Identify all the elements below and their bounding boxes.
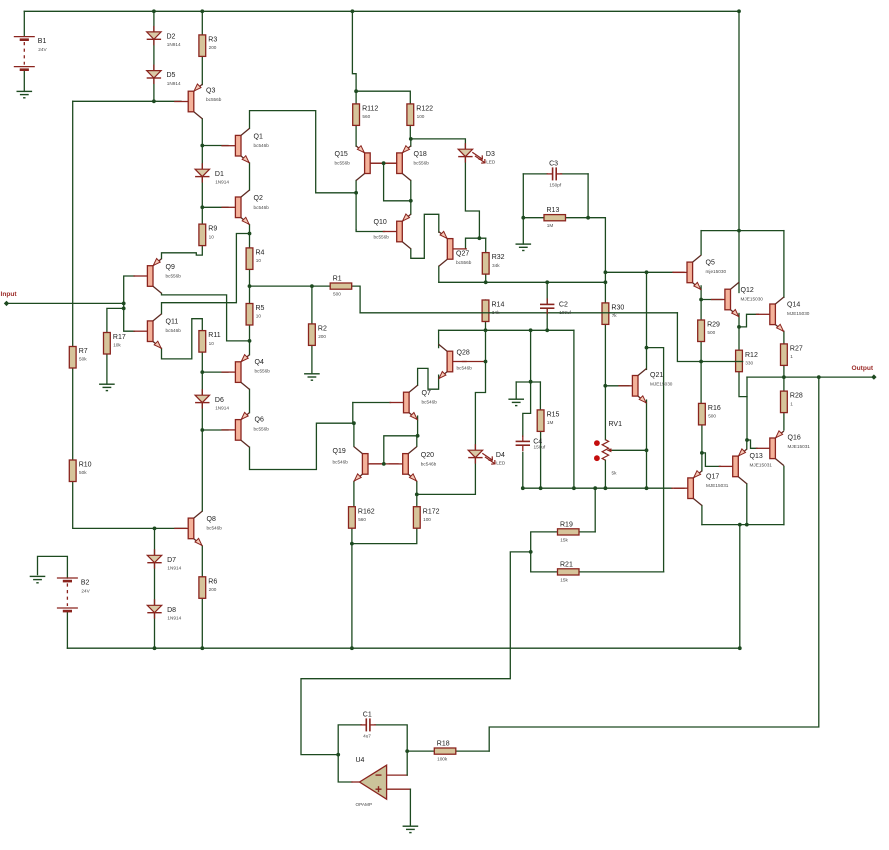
svg-text:bc546b: bc546b xyxy=(166,328,182,333)
wire Q4 base xyxy=(202,371,228,373)
wire node to R1 xyxy=(250,285,331,287)
svg-text:MJE15030: MJE15030 xyxy=(650,382,673,387)
transistor Q6 xyxy=(235,420,241,441)
wire D6 cathode lead xyxy=(201,403,203,430)
wire Q17 base stub xyxy=(672,487,684,489)
junction ground R15 C4 xyxy=(529,380,533,384)
svg-text:R27: R27 xyxy=(790,346,803,353)
wire Q14 emitter to R27 xyxy=(783,331,785,344)
junction A Q21 xyxy=(645,270,649,274)
junction C2 lower xyxy=(545,328,549,332)
wire R16 bottom lead xyxy=(701,425,703,453)
wire Q10 collector staple xyxy=(411,214,439,258)
wire R30 bottom to Q21 base xyxy=(605,324,629,385)
svg-text:R29: R29 xyxy=(707,322,720,329)
resistor R12 xyxy=(736,350,743,372)
svg-text:1M: 1M xyxy=(547,223,554,228)
wire R27 bottom lead xyxy=(783,366,785,378)
wire R10 to Q8 base xyxy=(73,482,186,529)
junction R14 lower xyxy=(484,328,488,332)
wire Q3 base xyxy=(154,100,181,102)
diode D7 xyxy=(154,549,156,555)
junction input Q9b xyxy=(122,302,126,306)
wire R14 bottom lead xyxy=(485,320,487,330)
junction R19 R21 servo xyxy=(529,550,533,554)
svg-text:Output: Output xyxy=(852,365,874,372)
resistor R32 xyxy=(482,253,489,275)
svg-text:R15: R15 xyxy=(547,412,560,419)
resistor R10 xyxy=(69,460,76,482)
wire R112 top lead xyxy=(355,91,357,104)
svg-text:Q21: Q21 xyxy=(650,372,663,379)
wire Q28 base junction drop xyxy=(475,330,485,450)
junction R5 Q4e xyxy=(248,339,252,343)
svg-text:50k: 50k xyxy=(79,357,87,362)
junction R11 D6 Q4b xyxy=(200,370,204,374)
transistor Q4 xyxy=(235,362,241,383)
svg-text:C2: C2 xyxy=(559,302,568,309)
wire tail drop to rail xyxy=(351,544,353,649)
wire R162-R172 bottom link xyxy=(352,528,417,543)
svg-text:bc546b: bc546b xyxy=(207,526,223,531)
svg-text:Q8: Q8 xyxy=(207,516,216,523)
svg-text:R19: R19 xyxy=(560,521,573,528)
resistor R15 xyxy=(537,410,544,432)
svg-text:D4: D4 xyxy=(496,452,505,459)
wire B1 to ground xyxy=(23,70,25,92)
wire Q14 collector lead xyxy=(783,231,785,298)
wire Q19 emitter lead xyxy=(353,482,355,507)
svg-text:Q2: Q2 xyxy=(254,195,263,202)
svg-text:R162: R162 xyxy=(358,508,375,515)
wire Q7 emitter to Q20 collector xyxy=(417,416,419,436)
wire D7 top lead xyxy=(154,528,156,555)
wire R19 R21 left link xyxy=(531,532,558,572)
wire R9 top lead xyxy=(201,207,203,224)
svg-text:Q18: Q18 xyxy=(414,151,427,158)
wire C3 left drop xyxy=(522,174,524,218)
junction bus Q21e xyxy=(645,486,649,490)
wire Q18 collector lead xyxy=(410,181,412,201)
svg-text:R1: R1 xyxy=(333,276,342,283)
svg-text:bc546b: bc546b xyxy=(421,462,437,467)
junction D3 R32 xyxy=(478,236,482,240)
capacitor C3 xyxy=(552,167,554,180)
wire C3 loop right xyxy=(561,173,588,175)
svg-text:Q1: Q1 xyxy=(254,133,263,140)
wire D6 anode lead xyxy=(201,372,203,395)
wire D3 anode feed xyxy=(411,139,466,149)
capacitor C2 xyxy=(540,303,554,305)
junction Q12e R12 Q14b xyxy=(737,325,741,329)
svg-text:Q17: Q17 xyxy=(706,473,719,480)
diode D5 xyxy=(153,65,155,71)
junction R29 signal xyxy=(699,360,703,364)
wire Q11 collector to input node xyxy=(162,234,250,314)
resistor R21 xyxy=(558,569,580,575)
wire Q19 Q20 base tie xyxy=(370,463,398,465)
wire bus riser R19 xyxy=(594,488,596,532)
wire minus riser xyxy=(406,751,408,775)
wire A to Q21 branch xyxy=(646,272,648,347)
wire Q2 base xyxy=(202,206,228,208)
wire gnd stub xyxy=(515,382,517,398)
junction bus RV1 xyxy=(604,486,608,490)
junction Q13e Q16b xyxy=(745,438,749,442)
junction Q15c loop xyxy=(354,191,358,195)
wire Q16 collector drop xyxy=(783,466,785,524)
wire Q5 collector lead xyxy=(700,231,702,255)
wire R19 right lead xyxy=(579,531,595,533)
svg-text:1N914: 1N914 xyxy=(215,179,229,184)
svg-text:34k: 34k xyxy=(492,263,500,268)
svg-text:R7: R7 xyxy=(79,348,88,355)
wire Q28 emitter S-jog xyxy=(418,368,439,389)
svg-text:Q20: Q20 xyxy=(421,452,434,459)
svg-text:Q7: Q7 xyxy=(422,390,431,397)
svg-text:50k: 50k xyxy=(79,470,87,475)
junction collector bus L xyxy=(738,523,742,527)
transistor Q1 xyxy=(235,135,241,156)
svg-text:R122: R122 xyxy=(416,106,433,113)
resistor R112 xyxy=(353,104,360,126)
ground R15 C4 xyxy=(508,398,524,400)
wire Q14 base hook xyxy=(739,314,759,327)
resistor R29 xyxy=(698,320,705,342)
wire D6 to Q8 collector xyxy=(201,430,203,511)
wire R122 bottom lead xyxy=(409,125,411,138)
svg-text:200: 200 xyxy=(209,587,217,592)
svg-text:Input: Input xyxy=(1,291,18,298)
junction R162 R172 tail xyxy=(350,542,354,546)
wire RV1 top lead xyxy=(604,386,606,440)
svg-text:7k: 7k xyxy=(612,313,618,318)
svg-text:1: 1 xyxy=(790,401,793,406)
junction C2 top xyxy=(545,280,549,284)
resistor R18 xyxy=(434,748,456,754)
svg-text:Q13: Q13 xyxy=(750,453,763,460)
wire R13 left + ground stub xyxy=(523,217,544,219)
wire servo feed xyxy=(301,552,531,755)
svg-text:560: 560 xyxy=(362,114,370,119)
wire Q16 base hook xyxy=(747,440,757,448)
transistor Q20 xyxy=(403,454,409,475)
svg-text:Q12: Q12 xyxy=(741,287,754,294)
svg-text:Q10: Q10 xyxy=(374,219,387,226)
junction rail corner xyxy=(737,229,741,233)
svg-text:bc556b: bc556b xyxy=(335,161,351,166)
wire B2 top loop xyxy=(38,556,68,578)
transistor Q16 xyxy=(770,438,776,459)
wire R3 top lead xyxy=(201,11,203,35)
wire bus to Q17 base xyxy=(523,487,672,489)
svg-text:D3: D3 xyxy=(486,151,495,158)
svg-text:bc546b: bc546b xyxy=(254,205,270,210)
svg-text:B1: B1 xyxy=(38,38,47,45)
svg-text:MJE15031: MJE15031 xyxy=(750,463,773,468)
wire R28 top lead xyxy=(783,377,785,391)
junction R17 Q11b xyxy=(122,307,126,311)
svg-text:bc556b: bc556b xyxy=(206,97,222,102)
svg-text:D7: D7 xyxy=(167,557,176,564)
op-amp U4 xyxy=(360,765,387,799)
svg-text:200: 200 xyxy=(318,334,326,339)
wire Q6 collector to Q7 base node xyxy=(250,423,354,469)
junction C1 left opamp xyxy=(336,753,340,757)
wire supply jog to LTP loads xyxy=(352,11,356,91)
junction Q7e Q20c xyxy=(416,434,420,438)
wire R5 top lead xyxy=(249,286,251,303)
resistor R3 xyxy=(199,35,206,57)
wire R2 top lead xyxy=(311,286,313,324)
svg-text:1N914: 1N914 xyxy=(167,81,181,86)
wire R28 to Q16 emitter xyxy=(783,413,785,430)
svg-text:500: 500 xyxy=(708,414,716,419)
transistor Q28 xyxy=(447,351,453,372)
wire C1 right xyxy=(375,725,407,751)
svg-text:1N914: 1N914 xyxy=(167,566,181,571)
svg-text:R28: R28 xyxy=(790,393,803,400)
resistor R6 xyxy=(199,577,206,599)
wire R7 bottom to R10 xyxy=(72,368,74,460)
junction bus R15 xyxy=(539,486,543,490)
wire Q11 base drop xyxy=(124,308,135,331)
svg-text:D6: D6 xyxy=(215,397,224,404)
svg-text:D5: D5 xyxy=(167,72,176,79)
svg-text:MJE15031: MJE15031 xyxy=(788,444,811,449)
svg-text:Q15: Q15 xyxy=(335,151,348,158)
svg-text:D8: D8 xyxy=(167,607,176,614)
svg-text:bc556b: bc556b xyxy=(255,369,271,374)
ground C3 R13 xyxy=(516,243,532,245)
svg-text:R21: R21 xyxy=(560,561,573,568)
svg-text:560: 560 xyxy=(358,517,366,522)
wire C4 branch up xyxy=(530,330,532,381)
diode D2 xyxy=(153,26,155,32)
wire C1 loop left xyxy=(338,725,361,755)
wire gnd cluster xyxy=(516,381,540,383)
svg-text:R10: R10 xyxy=(79,462,92,469)
svg-text:100uf: 100uf xyxy=(559,310,571,315)
svg-text:bc556b: bc556b xyxy=(456,260,472,265)
svg-text:24V: 24V xyxy=(81,589,90,594)
svg-text:R17: R17 xyxy=(113,334,126,341)
wire R2 to ground xyxy=(311,345,313,373)
wire C4 bottom lead xyxy=(522,452,524,488)
junction D4 Q20e xyxy=(415,493,419,497)
resistor R11 xyxy=(199,331,206,353)
wire Q15 collector lead xyxy=(355,181,357,230)
wire RV1 wiper xyxy=(612,449,647,451)
wire R18 right lead xyxy=(456,750,489,752)
svg-text:MJE15030: MJE15030 xyxy=(787,311,810,316)
svg-text:Q19: Q19 xyxy=(333,448,346,455)
svg-text:Q4: Q4 xyxy=(255,359,264,366)
svg-text:15k: 15k xyxy=(560,537,568,542)
wire R32 top lead xyxy=(485,238,487,252)
transistor Q17 xyxy=(688,478,694,499)
wire plus ground drop xyxy=(409,789,411,825)
junction R16 Q17e xyxy=(700,451,704,455)
wire D1 anode lead xyxy=(201,146,203,170)
svg-text:500: 500 xyxy=(333,292,341,297)
wire feedback down xyxy=(489,377,819,751)
junction rail mid xyxy=(351,9,355,13)
transistor Q3 xyxy=(188,91,194,112)
wire R17 branch xyxy=(107,308,124,332)
junction R13 right xyxy=(586,216,590,220)
transistor Q8 xyxy=(188,518,194,539)
svg-text:R30: R30 xyxy=(611,305,624,312)
junction C1 R18 minus xyxy=(405,749,409,753)
svg-text:R112: R112 xyxy=(362,106,378,113)
wire signal to R12 xyxy=(677,313,739,362)
wire Q20 collector lead xyxy=(416,436,418,447)
wire output line xyxy=(747,376,874,378)
wire Q27 collector to line B xyxy=(438,266,440,282)
wire Q7 base drop xyxy=(353,403,354,424)
ground R17 xyxy=(99,383,115,385)
transistor Q14 xyxy=(770,304,776,325)
input terminal xyxy=(4,301,9,306)
RV1 pin marker bottom xyxy=(594,455,600,461)
svg-text:U4: U4 xyxy=(356,757,365,764)
svg-text:bc546b: bc546b xyxy=(457,365,473,370)
wire Q15 Q18 base tie xyxy=(370,162,397,164)
svg-text:Q27: Q27 xyxy=(456,251,469,258)
junction Q19 Q20 bases xyxy=(382,462,386,466)
svg-text:Q9: Q9 xyxy=(166,264,175,271)
transistor Q2 xyxy=(235,197,241,218)
wire Q8 emitter to R6 xyxy=(201,546,203,577)
svg-text:4u7: 4u7 xyxy=(363,734,371,739)
svg-text:R5: R5 xyxy=(256,305,265,312)
diode D1 xyxy=(201,163,203,169)
svg-text:1: 1 xyxy=(790,354,793,359)
svg-text:LED: LED xyxy=(496,460,506,465)
wire R15 top lead xyxy=(539,382,541,409)
wire C2 top lead xyxy=(546,282,548,304)
transistor Q11 xyxy=(147,321,153,342)
svg-text:C3: C3 xyxy=(549,161,558,168)
wire Q28 base lead xyxy=(463,361,486,363)
diode D6 xyxy=(201,389,203,395)
wire R9 bottom jog xyxy=(162,245,203,259)
led D3 xyxy=(464,143,466,149)
wire R17 to ground xyxy=(106,354,108,384)
svg-text:R2: R2 xyxy=(318,326,327,333)
svg-text:Q3: Q3 xyxy=(206,87,215,94)
wire R5 bottom node xyxy=(249,325,251,341)
wire Q17 collector drop xyxy=(701,506,703,525)
resistor R7 xyxy=(69,347,76,369)
wire Q5 base stub xyxy=(673,271,684,273)
svg-text:R4: R4 xyxy=(256,250,265,257)
wire D8 to bottom rail xyxy=(154,613,156,649)
junction rail R162 xyxy=(350,646,354,650)
svg-text:100: 100 xyxy=(417,114,425,119)
wire Q17 emitter lead xyxy=(701,453,703,471)
svg-text:MJE15030: MJE15030 xyxy=(741,297,764,302)
ground B1 xyxy=(17,90,33,92)
wire D4 cathode xyxy=(417,458,476,495)
wire collector bus bottom xyxy=(702,524,784,526)
wire Q17em to Q13 base xyxy=(702,453,721,467)
svg-text:Q16: Q16 xyxy=(788,434,801,441)
transistor Q18 xyxy=(397,153,403,174)
wire Q5 emitter node xyxy=(700,286,702,320)
wire R162 bottom xyxy=(351,528,353,543)
junction rail right xyxy=(737,9,741,13)
svg-text:bc556b: bc556b xyxy=(254,426,270,431)
junction A start xyxy=(604,270,608,274)
wire Q20 emitter lead xyxy=(416,482,418,507)
svg-text:Q11: Q11 xyxy=(166,318,179,325)
ground R2 xyxy=(304,373,320,375)
wire C3 loop left xyxy=(523,173,547,175)
transistor Q21 xyxy=(632,376,638,397)
wire Q9 base riser xyxy=(124,276,135,303)
resistor R19 xyxy=(558,529,580,535)
junction Q5e R29 Q12b xyxy=(699,298,703,302)
svg-text:Q6: Q6 xyxy=(255,417,264,424)
junction Q18c Q10e xyxy=(409,199,413,203)
svg-text:R32: R32 xyxy=(492,254,505,261)
wire R29 bottom to R16 xyxy=(700,342,702,403)
junction R32 line B xyxy=(484,280,488,284)
wire C4 top hook xyxy=(523,382,531,437)
resistor R2 xyxy=(309,324,316,346)
output terminal xyxy=(871,374,876,379)
junction Q8 base D7 xyxy=(153,527,157,531)
ground B2 xyxy=(30,575,46,577)
wire Q12 collector lead xyxy=(738,231,740,293)
capacitor C4 xyxy=(516,440,530,442)
wire R11 bottom lead xyxy=(201,352,203,372)
wire top collector bar xyxy=(701,230,784,232)
wire Q13 collector drop xyxy=(746,484,748,525)
wire top supply rail xyxy=(24,10,739,12)
wire Q18 emitter lead xyxy=(410,139,412,146)
wire Q21 emitter column xyxy=(646,400,648,488)
resistor R30 xyxy=(602,303,609,325)
junction VB1 node xyxy=(152,99,156,103)
junction bus R19 xyxy=(593,486,597,490)
transistor Q13 xyxy=(733,456,739,477)
resistor R1 xyxy=(330,283,352,289)
wire D3 cathode jog xyxy=(465,157,479,239)
wire R21 right lead xyxy=(579,571,664,573)
wire D1 cathode lead xyxy=(201,177,203,208)
junction collector bus R xyxy=(745,523,749,527)
wire R14 top lead xyxy=(485,300,487,313)
resistor R5 xyxy=(246,304,253,326)
junction Q15 Q18 bases xyxy=(382,161,386,165)
svg-text:Q14: Q14 xyxy=(787,301,800,308)
junction R2 top xyxy=(310,284,314,288)
svg-text:200: 200 xyxy=(209,45,217,50)
wire R15 bottom lead xyxy=(540,432,542,489)
svg-text:R3: R3 xyxy=(208,37,217,44)
wire Q11 emitter to R11 xyxy=(162,319,203,359)
svg-text:1N914: 1N914 xyxy=(167,42,181,47)
wire tick over R14 xyxy=(482,312,489,314)
junction Q3c D1 Q1b xyxy=(200,144,204,148)
svg-text:bc546b: bc546b xyxy=(333,459,349,464)
resistor R13 xyxy=(544,215,566,221)
svg-text:R11: R11 xyxy=(208,332,220,339)
wire D7-D8 link xyxy=(154,563,156,606)
